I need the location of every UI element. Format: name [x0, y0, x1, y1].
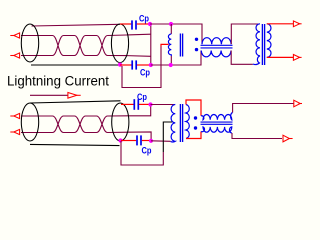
- lightning current flow arrow: [30, 94, 68, 96]
- right ellipse of lower cable: [112, 103, 129, 141]
- transformer T3 primary winding (center tapped): [171, 105, 176, 143]
- wire: vertical stub joining pair wires to top and bottom rail dots: [150, 24, 152, 65]
- right ellipse of top cable: [111, 24, 128, 63]
- arrow out 3: [294, 100, 302, 107]
- wire: top rail dot150 to dot171 to choke: [150, 24, 202, 44]
- node dot (150.5,104.5): [148, 102, 152, 106]
- choke CM1 bottom winding: [201, 51, 231, 57]
- svg-text:Cp: Cp: [142, 146, 152, 157]
- choke CM1 top winding: [202, 38, 231, 45]
- choke CM2 bottom winding: [201, 127, 232, 133]
- cylinder top line (lower cable, black): [30, 101, 121, 103]
- wire: red lead C3 to dot: [139, 103, 150, 105]
- arrow A3 (left input arrow, lower cable wire A): [10, 113, 19, 118]
- wire: red lead lower-cable top to C3: [121, 103, 134, 105]
- T3 core bars: [180, 104, 182, 142]
- capacitor C3 (Cp lower-top): [134, 99, 138, 110]
- transformer T2 secondary winding: [267, 24, 271, 58]
- wire: choke CM1 bottom-right stub and bottom rail to T2: [231, 51, 253, 65]
- shield node dot on right ellipse bottom: [118, 63, 122, 67]
- wire: red lead lower shield dot to C4: [121, 140, 136, 142]
- node dot (151,140.8): [149, 139, 153, 143]
- capacitor C4 (Cp lower-bottom): [137, 135, 141, 145]
- svg-text:Cp: Cp: [137, 92, 147, 103]
- wire: red lead shield dot to C2: [120, 64, 132, 66]
- node dot (171,24): [169, 22, 173, 26]
- wire: lower bottom rail to T3 winding: [151, 140, 171, 143]
- wire: top cable pair wire A (with twist): [21, 36, 151, 57]
- arrow A4 (left input arrow, lower cable wire B): [10, 129, 19, 134]
- wire: lower top rail to T3 winding: [151, 104, 176, 106]
- arrow out 4: [283, 135, 293, 142]
- arrow A1 (left input arrow, top cable wire A): [10, 33, 19, 38]
- svg-text:Cp: Cp: [139, 14, 149, 25]
- choke CM2 core lines: [201, 122, 233, 124]
- node dot (150,24): [148, 22, 152, 26]
- wire: lower cable pair wire A (with twist): [21, 116, 151, 141]
- red center-tap wire of T1 to cable shield: [161, 44, 169, 46]
- choke CM1 core lines: [201, 45, 233, 48]
- wire: top cable pair wire B (with twist): [21, 34, 151, 55]
- arrow out 1: [293, 21, 301, 27]
- transformer T3 secondary winding: [186, 105, 189, 139]
- wire: tap continues down, around to lower shield dot: [121, 141, 163, 165]
- wire: top rail from right ellipse top to capacitor (red lead): [120, 23, 131, 25]
- wire: T2 secondary bottom output (red): [267, 56, 293, 58]
- wire: tap continues down, around to shield dot: [122, 47, 161, 88]
- choke CM2 phasing dots: [194, 116, 197, 119]
- cylinder bottom line (top cable, black): [31, 64, 119, 66]
- T2 core bars: [262, 24, 264, 65]
- node dot (150.8,65): [149, 63, 153, 67]
- left ellipse of top cable: [21, 24, 38, 62]
- cylinder bottom line (lower cable, black): [30, 144, 120, 145]
- choke CM2 top winding: [201, 113, 233, 120]
- cylinder top line (top cable, maroon): [32, 24, 121, 26]
- black center-tap wire of T3 to lower shield: [163, 122, 172, 152]
- wire: red T3 secondary top to choke CM2: [186, 100, 201, 116]
- capacitor C2 (Cp bottom): [132, 60, 136, 69]
- node dot (170.7,65): [169, 63, 173, 67]
- common-mode choke CM1 phasing dots: [195, 38, 198, 41]
- T1 core bars: [180, 34, 182, 57]
- wire: red lead C1 to dot: [137, 23, 150, 25]
- svg-text:Lightning Current: Lightning Current: [7, 74, 109, 89]
- transformer T1 primary winding (center-tapped, hangs between rails): [170, 24, 172, 34]
- wire: T2 secondary top output (red): [267, 23, 293, 25]
- wire: red lead C4 to dot: [142, 140, 151, 142]
- svg-text:Cp: Cp: [140, 68, 150, 79]
- wire: lower bottom output rail: [232, 133, 282, 139]
- wire: choke CM1 top-right stub and top rail to T2: [231, 24, 259, 44]
- arrow out 2: [293, 55, 301, 61]
- wire: lower cable pair wire B (with twist): [21, 105, 151, 133]
- wire: red lead C2 to dot: [137, 64, 150, 66]
- wire: red T3 secondary bottom to choke CM2: [186, 132, 201, 139]
- wire: bottom rail dot to dot to choke: [151, 51, 201, 66]
- transformer T2 primary winding: [253, 24, 260, 65]
- capacitor C1 (Cp top): [132, 20, 136, 29]
- shield node dot on lower right ellipse bottom: [118, 138, 122, 142]
- left ellipse of lower cable: [21, 103, 38, 141]
- arrow A2 (left input arrow, top cable wire B): [10, 53, 19, 58]
- wire: lower top output rail: [233, 104, 294, 113]
